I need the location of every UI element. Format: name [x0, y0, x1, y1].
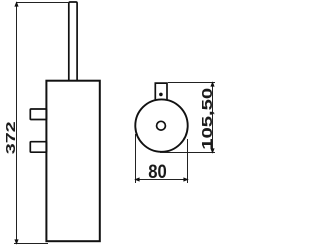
extension line top (105,50)	[168, 82, 215, 84]
extension line bottom (372)	[14, 243, 48, 245]
arrow up (105,50)	[210, 81, 214, 86]
wall bracket upper	[30, 109, 46, 120]
extension line right (80)	[187, 139, 189, 183]
extension line bottom (105,50)	[160, 152, 215, 154]
holder body (side view)	[46, 81, 99, 242]
arrow down (105,50)	[210, 148, 214, 153]
holder circle (top view)	[135, 99, 187, 151]
brush handle rod (side view)	[69, 2, 77, 82]
arrow right (80)	[183, 177, 188, 181]
wall tab (top view)	[155, 83, 167, 100]
dimension line 372	[16, 3, 18, 244]
arrow down (372)	[14, 239, 18, 244]
extension line left (80)	[135, 134, 137, 183]
svg-text:372: 372	[3, 121, 18, 154]
svg-text:105,50: 105,50	[200, 88, 216, 150]
dimension line 105,50	[212, 83, 214, 153]
wall bracket lower	[30, 142, 46, 153]
svg-text:80: 80	[148, 162, 167, 183]
dimension line 80	[136, 179, 188, 181]
extension line top (372)	[16, 2, 69, 4]
arrow left (80)	[134, 177, 139, 181]
screw dot in tab	[159, 93, 163, 97]
inner circle (top view)	[157, 121, 166, 130]
arrow up (372)	[14, 1, 18, 6]
